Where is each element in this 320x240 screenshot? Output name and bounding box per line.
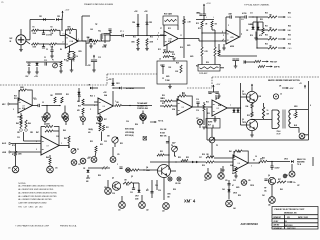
- wire in to U1B: [160, 34, 164, 36]
- svg-text:J11: J11: [8, 168, 11, 170]
- wire out node: [252, 118, 272, 120]
- jack top row 4: [98, 117, 103, 122]
- svg-text:U7: U7: [46, 145, 48, 147]
- svg-text:R66: R66: [288, 44, 291, 46]
- extra label x62: [199, 157, 202, 159]
- capacitor C16: [94, 60, 97, 61]
- svg-text:P5: P5: [216, 145, 218, 147]
- svg-text:R65: R65: [288, 35, 291, 37]
- svg-text:MERIDIAN, MS: MERIDIAN, MS: [284, 211, 297, 214]
- svg-text:R30: R30: [162, 95, 165, 97]
- label R34: [246, 105, 249, 108]
- label VOL: [288, 17, 292, 19]
- wire R16 down: [211, 27, 213, 30]
- resistor R27 below U4: [99, 116, 101, 121]
- power box right: [308, 81, 310, 140]
- wire jack stub a: [46, 106, 48, 113]
- svg-text:VR1: VR1: [17, 132, 20, 134]
- label r val a: [167, 194, 172, 196]
- feedback resistor R5: [67, 29, 74, 31]
- value label t3: [102, 47, 106, 49]
- node jack b: [59, 105, 60, 106]
- resistor R30: [164, 100, 172, 102]
- label R1: [33, 27, 35, 29]
- svg-text:C12: C12: [44, 60, 47, 62]
- corner sheet mark: [2, 2, 4, 4]
- value label m19: [206, 102, 209, 104]
- node q base bus: [252, 16, 253, 17]
- svg-text:CR17: CR17: [135, 196, 139, 198]
- label CH L: [288, 48, 292, 50]
- wire J17 stem: [199, 125, 201, 128]
- value label m11: [160, 65, 163, 67]
- svg-text:R29: R29: [196, 66, 199, 68]
- wire R48 jack: [49, 164, 51, 166]
- value label b9: [8, 168, 11, 170]
- capacitor C33: [208, 92, 211, 93]
- power label +15V col1: [134, 11, 138, 13]
- svg-text:J21: J21: [118, 210, 121, 212]
- wire R11 gnd: [137, 46, 139, 49]
- label K1b: [208, 125, 211, 127]
- value label t21: [223, 39, 224, 41]
- wire jack lower: [26, 41, 30, 44]
- resistor R13 below U1B a: [163, 51, 170, 53]
- resistor R39: [206, 161, 214, 163]
- svg-text:R1: R1: [33, 27, 35, 29]
- diode CR4: [137, 24, 140, 26]
- extra label x70: [238, 195, 241, 197]
- wire pot p3 stem: [114, 143, 116, 147]
- svg-text:C30: C30: [17, 137, 20, 139]
- jack J23: [163, 203, 170, 210]
- label R45: [17, 117, 22, 119]
- ground R19: [59, 71, 63, 73]
- jack top row 3: [81, 117, 86, 122]
- extra label x32: [162, 103, 165, 105]
- wire r6 r7 link: [69, 51, 74, 53]
- svg-text:BAL: BAL: [288, 29, 292, 32]
- transistor Q6: [268, 177, 275, 184]
- value label m18: [196, 99, 199, 101]
- title block divider 3: [272, 222, 318, 224]
- resistor R22: [54, 97, 56, 103]
- label Q3: [242, 119, 244, 121]
- svg-text:J18: J18: [204, 180, 207, 182]
- label R13 10K: [163, 50, 167, 52]
- extra label x0: [158, 33, 159, 35]
- op-amp U6A: [233, 155, 248, 171]
- resistor R54: [131, 169, 139, 171]
- svg-text:R10 GAIN: R10 GAIN: [164, 13, 173, 16]
- svg-text:R13: R13: [158, 49, 161, 51]
- label C2: [46, 49, 48, 51]
- svg-text:CR18: CR18: [250, 185, 254, 187]
- power +15V arrow: [62, 10, 70, 15]
- cable slash marks: [102, 166, 108, 170]
- wire +15 drop: [251, 88, 253, 92]
- diode CR13: [233, 110, 236, 112]
- wire U1B pins down: [166, 44, 168, 52]
- wire CR9 gnd: [28, 67, 30, 72]
- node row1: [43, 30, 44, 31]
- wire R36 top: [263, 103, 265, 107]
- svg-text:R50: R50: [96, 123, 99, 125]
- notes line 5: [18, 198, 52, 201]
- svg-text:J12: J12: [78, 164, 81, 166]
- node speaker: [251, 119, 252, 120]
- wire R48 top: [49, 155, 51, 158]
- ground Q3: [250, 135, 254, 137]
- feedback loop U2B: [235, 17, 240, 37]
- svg-text:R35: R35: [247, 115, 250, 117]
- svg-text:GRN: GRN: [294, 106, 297, 108]
- svg-text:CR2: CR2: [57, 16, 60, 18]
- label CR1: [39, 16, 42, 18]
- feedback loop U3A: [27, 90, 32, 106]
- resistor R21 below U3A: [20, 115, 22, 120]
- wire q6 drop: [271, 185, 273, 197]
- input arrow mic: [8, 103, 11, 105]
- wire chan bus up: [109, 36, 111, 42]
- capacitor C4: [88, 39, 89, 42]
- svg-text:R56: R56: [98, 175, 101, 177]
- node master row: [175, 161, 176, 162]
- svg-text:C7 .1: C7 .1: [120, 31, 124, 33]
- svg-text:R30: R30: [265, 13, 268, 15]
- power label +15V col2: [144, 11, 148, 13]
- wire R49 link: [68, 143, 70, 148]
- svg-text:R39: R39: [202, 165, 205, 167]
- feedback resistor R20 220K: [19, 89, 27, 91]
- label pot b: [88, 132, 91, 134]
- wire C13 gnd: [71, 60, 73, 70]
- label GND: [166, 76, 170, 78]
- resistor R28 2.2K in box: [180, 65, 182, 73]
- extra label x36: [207, 113, 210, 115]
- resistor R45: [20, 120, 22, 128]
- svg-text:CR1: CR1: [39, 16, 42, 18]
- svg-text:R6: R6: [60, 49, 62, 51]
- diode CR9: [28, 63, 31, 65]
- label Q2: [242, 91, 244, 93]
- value label m12: [176, 63, 179, 65]
- model number XM 4: [184, 199, 196, 204]
- value label m29: [232, 172, 235, 175]
- value label b40: [233, 193, 237, 195]
- extra label x77: [78, 51, 82, 53]
- feedback resistor R32: [178, 95, 186, 97]
- wire u1a supply: [69, 32, 71, 35]
- label R5 100K: [67, 26, 72, 28]
- note heatsink 1: [297, 158, 305, 161]
- value label m32: [286, 175, 288, 177]
- wire r34-35 join: [251, 108, 253, 112]
- wire R25 junction: [82, 114, 84, 116]
- wire R62 down: [183, 24, 185, 58]
- wire aux bus link: [82, 40, 86, 42]
- wire box left leg: [163, 25, 165, 33]
- svg-text:C7: C7: [160, 28, 162, 30]
- wire R21 stub: [20, 113, 22, 115]
- svg-text:R20: R20: [14, 98, 17, 100]
- resistor R34 emitter: [251, 103, 253, 108]
- ground U2B: [222, 48, 226, 50]
- resistor R51: [102, 125, 104, 131]
- label R24: [77, 100, 81, 103]
- svg-text:C3: C3: [44, 57, 46, 59]
- node base Q4: [143, 169, 144, 170]
- label 2.2K: [175, 71, 179, 73]
- label C1: [46, 34, 52, 37]
- resistor R15 1M: [201, 21, 203, 27]
- extra label x56: [104, 141, 107, 143]
- svg-text:© 1995 PEAVEY ELECTRONICS CORP: © 1995 PEAVEY ELECTRONICS CORP: [15, 225, 50, 228]
- wire bus from U5B: [227, 107, 240, 109]
- svg-text:U5: U5: [182, 107, 184, 109]
- label preout: [270, 61, 277, 63]
- wire T1 pri top: [271, 110, 273, 119]
- wire mute drop b: [257, 22, 259, 27]
- svg-text:C17: C17: [34, 99, 37, 101]
- label C24: [147, 189, 149, 191]
- resistor R11 150K: [137, 39, 139, 46]
- ground c28: [234, 66, 238, 68]
- svg-text:P2: P2: [68, 147, 70, 149]
- wire J11 stem: [15, 144, 17, 152]
- node base bus: [240, 107, 241, 108]
- svg-text:ALL RESISTORS 1/4W UNLESS NOTE: ALL RESISTORS 1/4W UNLESS NOTED: [18, 188, 54, 191]
- value label m4: [66, 94, 69, 96]
- signal arrows: [192, 161, 199, 163]
- jack J19: [218, 173, 224, 179]
- diode CR5: [146, 22, 149, 24]
- node R26: [129, 105, 130, 106]
- label CR16: [83, 168, 86, 170]
- resistor R25: [82, 108, 84, 114]
- svg-text:+15V: +15V: [134, 11, 138, 13]
- node U1A out: [85, 40, 86, 41]
- wire r61 top: [295, 110, 297, 113]
- jack J17: [197, 119, 203, 125]
- power box bottom: [207, 139, 309, 141]
- extra label x55: [90, 141, 93, 143]
- ground R43: [234, 176, 238, 178]
- value label b27: [225, 180, 228, 182]
- value label b14: [96, 123, 99, 125]
- svg-text:VOL 10K: VOL 10K: [160, 129, 167, 131]
- wire C1 stub: [43, 30, 45, 33]
- wire U5A out: [192, 106, 198, 108]
- label J20a: [86, 178, 90, 180]
- extra label x65: [131, 176, 133, 178]
- notes line 4: [18, 195, 57, 198]
- title: typical each channel: [244, 4, 270, 7]
- wire diode bus right: [123, 87, 146, 89]
- wire R50 down: [101, 132, 103, 142]
- pot label EFF: [125, 134, 134, 137]
- notes ref row: [18, 207, 42, 209]
- extra label x45: [230, 164, 234, 167]
- extra label x3: [168, 41, 172, 43]
- value label t22: [241, 34, 242, 36]
- value label t7: [168, 28, 171, 30]
- value label m15: [220, 65, 221, 67]
- wire R13 link: [170, 51, 174, 53]
- wire c33 link: [208, 91, 219, 93]
- ground C34: [217, 96, 221, 98]
- label 10K: [116, 102, 120, 104]
- resistor R8: [92, 40, 98, 42]
- label EFF: [288, 39, 292, 41]
- value label m6: [90, 109, 92, 111]
- value label m27: [202, 165, 205, 167]
- svg-text:C36: C36: [126, 121, 129, 123]
- capacitor C11 4.7/50: [245, 15, 246, 18]
- value label t10: [222, 31, 223, 33]
- wire jack right: [26, 39, 30, 41]
- extra label x28: [103, 92, 107, 94]
- wire c19 stub: [197, 104, 199, 108]
- svg-text:U6: U6: [238, 163, 240, 165]
- value label t6: [160, 28, 162, 30]
- extra label x17: [288, 13, 291, 15]
- svg-text:J23: J23: [162, 211, 165, 213]
- value label t18: [157, 35, 158, 37]
- wire mix bus a: [24, 140, 42, 142]
- resistor R52: [95, 146, 97, 152]
- node row2: [43, 43, 44, 44]
- svg-text:C5 C6: C5 C6: [102, 47, 106, 49]
- wire T1 sec top: [291, 109, 309, 111]
- value label b31: [104, 187, 107, 189]
- arrow to reverb: [282, 87, 289, 89]
- extra label x9: [172, 53, 175, 56]
- op-amp U7A: [41, 136, 59, 155]
- wire R53 join: [164, 154, 169, 156]
- section divider dashed a: [0, 84, 107, 86]
- svg-text:J25: J25: [248, 180, 251, 182]
- label Q2 type: [242, 94, 246, 96]
- value label b5: [36, 141, 37, 143]
- capacitor C12: [45, 62, 46, 65]
- wire row1 drop: [57, 29, 61, 31]
- power +15V strip: [93, 55, 95, 59]
- wire r33 top: [203, 102, 205, 104]
- extra label x53: [68, 147, 70, 149]
- wire jack 4 stem: [99, 121, 101, 125]
- op-amp U1B: [164, 31, 178, 46]
- wire R26 on: [122, 105, 153, 107]
- label 10/25V: [275, 168, 281, 170]
- wire U5B gnd stub: [214, 116, 216, 120]
- capacitor C29: [236, 59, 239, 60]
- wire J21 stem: [121, 196, 123, 202]
- extra label x61: [186, 157, 189, 159]
- extra label x4: [222, 32, 223, 34]
- capacitor C27: [244, 60, 245, 63]
- svg-text:R23: R23: [66, 94, 69, 96]
- extra label x18: [288, 25, 291, 28]
- extra label x15: [260, 19, 263, 21]
- wire C3 stub: [51, 46, 53, 50]
- extra label x21: [14, 96, 17, 98]
- resistor R4: [50, 43, 57, 45]
- svg-text:R19: R19: [64, 60, 67, 62]
- wire U4 apex up: [112, 91, 114, 106]
- svg-text:ALL PINS ARE USED UNLESS OTHER: ALL PINS ARE USED UNLESS OTHERWISE NOTED: [18, 185, 64, 188]
- label J7: [304, 135, 309, 137]
- resistor R68 col: [214, 47, 216, 56]
- value label b11: [77, 149, 79, 151]
- label VOL: [98, 31, 101, 33]
- extra label x14: [250, 13, 253, 15]
- resistor R55: [181, 159, 188, 161]
- diode CR18: [228, 190, 231, 192]
- svg-text:R15: R15: [198, 28, 201, 30]
- node c7 in: [109, 34, 110, 35]
- svg-text:U4: U4: [103, 106, 105, 108]
- ground C5: [103, 45, 107, 47]
- wire R15 col down: [201, 33, 203, 47]
- label 10 5W a: [267, 110, 269, 112]
- XLR input jack J1: [16, 35, 26, 45]
- label 150K: [131, 42, 136, 44]
- extra label x63: [98, 175, 101, 177]
- value label b0: [16, 122, 19, 125]
- value label b38: [175, 183, 181, 185]
- jack J8 line out: [289, 171, 295, 177]
- diode CR6 LED: [90, 39, 93, 41]
- resistor R36 10 5W: [262, 107, 264, 118]
- ground R27: [98, 124, 102, 126]
- wire mute drop c: [262, 22, 264, 28]
- wire bias column: [78, 88, 80, 102]
- value label m20: [216, 98, 220, 100]
- resistor R59: [258, 65, 265, 67]
- wire Q2 base: [241, 96, 247, 98]
- extra label x39: [247, 115, 250, 117]
- svg-text:+15: +15: [299, 83, 302, 85]
- wire R43 gnd: [235, 173, 237, 176]
- wire U3A out: [32, 105, 38, 107]
- wire U4 minus: [94, 101, 98, 103]
- svg-text:J10: J10: [55, 168, 58, 170]
- value label m9: [116, 83, 120, 85]
- svg-text:B+: B+: [294, 182, 296, 184]
- svg-text:R55: R55: [186, 157, 189, 159]
- svg-text:C11: C11: [241, 19, 244, 21]
- svg-text:J2: J2: [42, 102, 44, 104]
- wire c32 link: [109, 31, 111, 36]
- extra label x11: [196, 23, 199, 25]
- wire R45 down: [23, 132, 25, 141]
- wire node A right: [99, 40, 110, 42]
- wire box down: [169, 84, 171, 87]
- jack J21: [119, 202, 126, 209]
- feedback loop U6A: [242, 151, 248, 163]
- extra label x8: [158, 49, 161, 51]
- extra label x20: [288, 44, 291, 46]
- extra label x54: [56, 136, 59, 138]
- label -15V: [25, 76, 29, 78]
- resistor R46: [25, 120, 27, 128]
- jack J11: [12, 166, 19, 173]
- svg-text:RLY: RLY: [208, 125, 211, 127]
- wire R16 col down: [214, 30, 216, 47]
- wire rail supply drop: [61, 20, 63, 32]
- capacitor C2: [42, 47, 45, 48]
